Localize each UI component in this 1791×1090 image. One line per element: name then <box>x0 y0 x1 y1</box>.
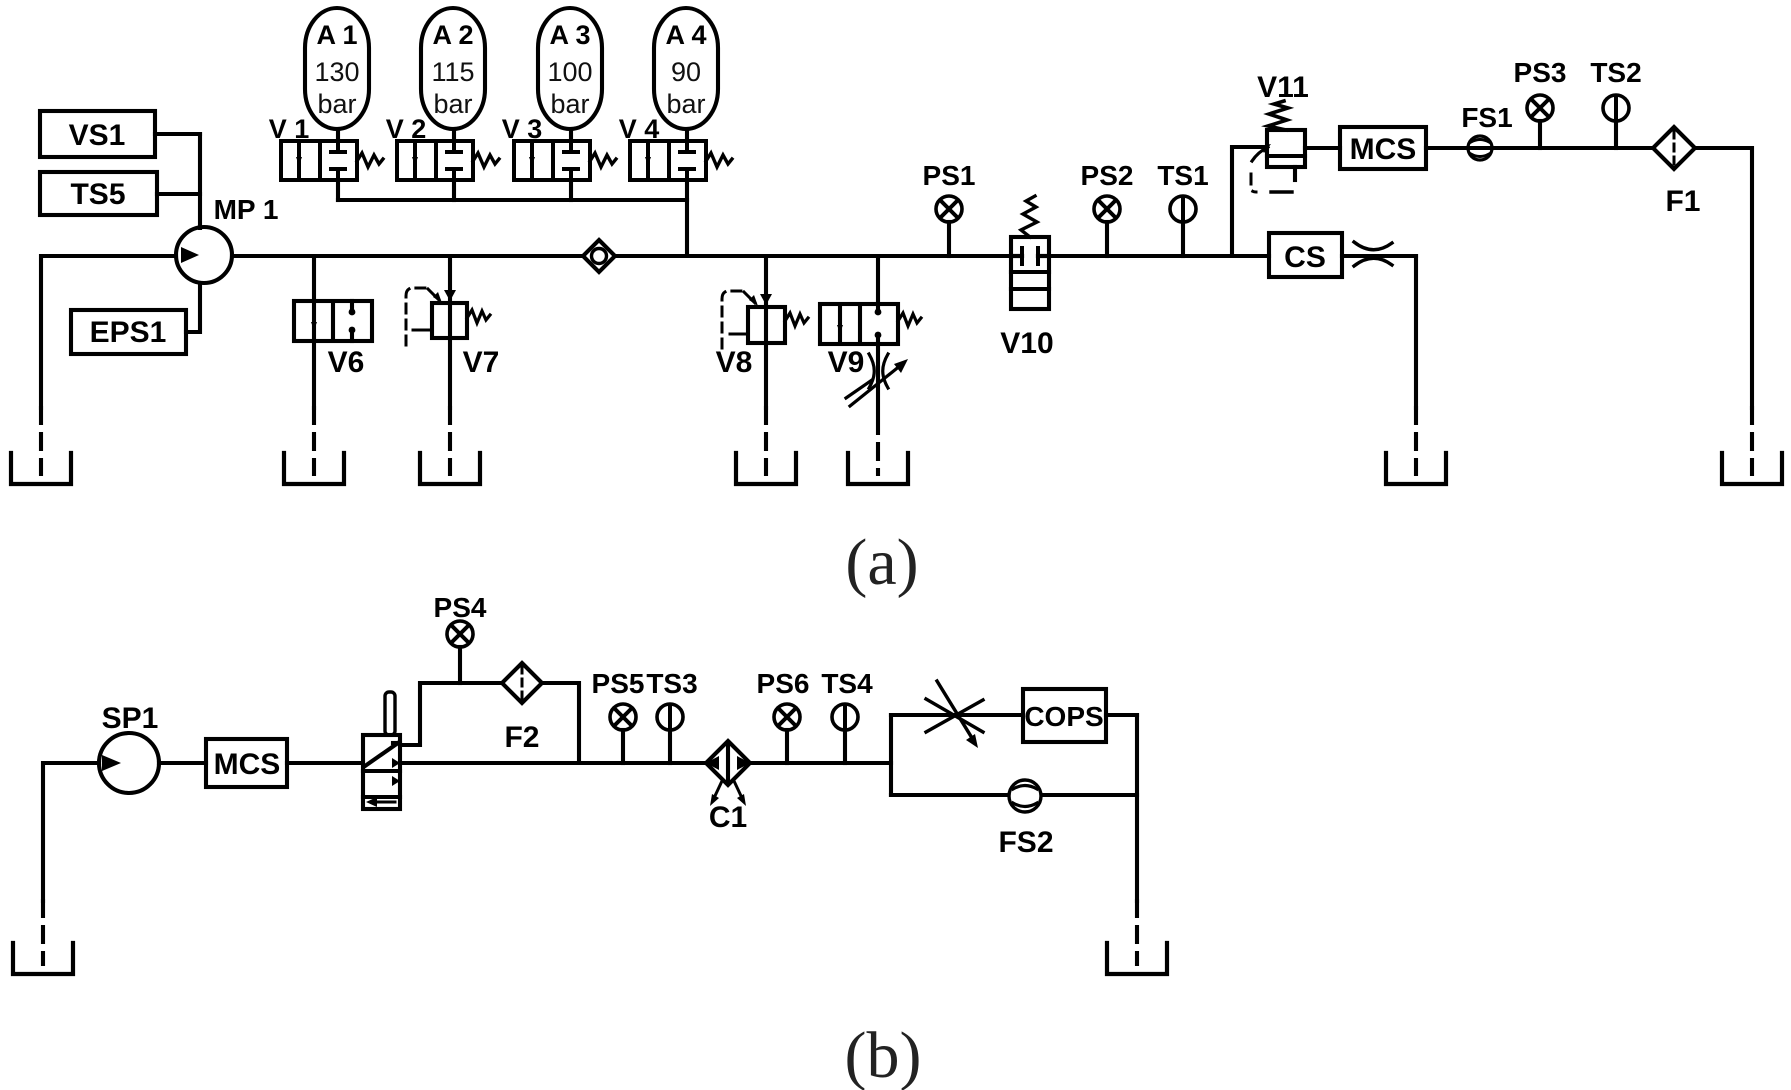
svg-text:FS2: FS2 <box>998 826 1053 859</box>
valve V2 <box>386 114 499 180</box>
wire V6 to tank T2 <box>312 341 316 408</box>
wire branch to V7 <box>448 256 452 303</box>
pump SP1 <box>99 702 159 793</box>
wire MCS to F1 <box>1426 146 1654 150</box>
wire F2 down to main line <box>542 683 579 763</box>
pump MP 1 <box>176 194 278 283</box>
svg-text:FS1: FS1 <box>1461 102 1512 133</box>
wire dashed drop T7 <box>1750 408 1754 474</box>
svg-text:V8: V8 <box>716 346 753 379</box>
wire COPS to right vertical <box>1106 713 1137 717</box>
svg-text:A 2: A 2 <box>432 20 473 50</box>
wire SP1 to MCS <box>159 761 206 765</box>
svg-text:C1: C1 <box>709 801 747 834</box>
wire V2 bottom port to bus <box>452 180 456 200</box>
valve V7 relief <box>406 288 499 379</box>
svg-text:EPS1: EPS1 <box>90 316 167 349</box>
tank T3 <box>420 453 480 484</box>
valve V1 <box>269 114 383 180</box>
wire dashed drop T1 <box>39 408 43 474</box>
wire branch to V6 <box>312 256 316 301</box>
wire VS1 to pump node <box>155 132 200 136</box>
svg-text:90: 90 <box>671 57 701 87</box>
svg-text:V6: V6 <box>328 346 365 379</box>
wire EPS1 to pump bottom <box>186 283 200 332</box>
accumulator A1 130 bar <box>305 8 369 141</box>
svg-text:bar: bar <box>666 89 705 119</box>
svg-text:(b): (b) <box>845 1019 922 1090</box>
wire dashed drop T5 <box>876 418 880 474</box>
wire V8 to tank T4 <box>764 343 768 408</box>
svg-text:F2: F2 <box>504 721 539 754</box>
wire pump suction to tank T1 <box>41 256 176 408</box>
svg-text:MCS: MCS <box>1350 133 1417 166</box>
svg-text:V7: V7 <box>463 346 500 379</box>
wire main line valve to C1 <box>400 761 706 765</box>
flow sensor FS1 <box>1461 102 1512 160</box>
svg-text:TS1: TS1 <box>1157 160 1208 191</box>
control box COPS <box>1023 689 1106 742</box>
tank T9 <box>1107 943 1167 974</box>
wire V11 to MCS <box>1305 146 1340 150</box>
wire main line check valve to V10 <box>615 254 1011 258</box>
svg-text:COPS: COPS <box>1024 701 1103 732</box>
wire dashed drop T3 <box>448 408 452 474</box>
wire vertical into pump top <box>198 134 202 228</box>
tank T8 <box>13 943 73 974</box>
wire dashed drop T2 <box>312 408 316 474</box>
svg-text:VS1: VS1 <box>69 119 126 152</box>
wire dashed drop T9 <box>1135 901 1139 964</box>
svg-text:CS: CS <box>1284 241 1326 274</box>
svg-text:A 4: A 4 <box>665 20 706 50</box>
wire V9 to throttle <box>876 344 880 414</box>
wire branch to V9 <box>876 256 880 304</box>
valve V10 <box>1000 196 1053 360</box>
control box MCS b <box>206 739 287 787</box>
sensor box TS5 <box>40 172 157 215</box>
filter F1 <box>1653 127 1701 218</box>
svg-text:115: 115 <box>431 57 474 87</box>
svg-text:bar: bar <box>317 89 356 119</box>
wire V7 to tank T3 <box>448 338 452 408</box>
svg-text:A 1: A 1 <box>316 20 357 50</box>
pressure sensor PS1 <box>923 160 976 256</box>
svg-text:V 1: V 1 <box>269 114 310 144</box>
wire TS5 to pump node <box>157 192 200 196</box>
valve V3 <box>502 114 616 180</box>
svg-text:V 3: V 3 <box>502 114 543 144</box>
flow sensor FS2 <box>998 780 1053 859</box>
valve V8 relief <box>716 291 808 379</box>
sensor box EPS1 <box>71 310 186 354</box>
filter F2 <box>502 663 542 754</box>
svg-text:bar: bar <box>550 89 589 119</box>
wire F1 to tank T7 <box>1695 148 1752 408</box>
wire branch up to V11 <box>1232 147 1267 256</box>
svg-text:V 4: V 4 <box>619 114 660 144</box>
svg-text:TS2: TS2 <box>1590 57 1641 88</box>
wire V1 bottom port to bus <box>336 180 340 200</box>
wire right vertical to tank T9 <box>1135 715 1139 901</box>
temperature sensor TS2 <box>1590 57 1641 148</box>
wire branch to V8 <box>764 256 768 307</box>
accumulator A4 90 bar <box>654 8 718 141</box>
valve V9 <box>820 304 921 379</box>
wire split vertical <box>889 715 893 795</box>
pressure sensor PS4 <box>434 592 487 683</box>
svg-text:V9: V9 <box>828 346 865 379</box>
svg-text:(a): (a) <box>845 526 918 599</box>
wire MCS to hand valve <box>287 761 363 765</box>
svg-text:100: 100 <box>547 57 592 87</box>
tank T4 <box>736 453 796 484</box>
svg-text:TS3: TS3 <box>646 668 697 699</box>
svg-text:V11: V11 <box>1257 71 1309 104</box>
wire lower branch <box>891 793 1137 797</box>
accumulator A3 100 bar <box>538 8 602 141</box>
svg-text:PS6: PS6 <box>757 668 810 699</box>
temperature sensor TS3 <box>646 668 697 763</box>
throttle b <box>926 681 983 748</box>
control box MCS <box>1340 127 1426 169</box>
coupling after CS <box>1354 242 1392 266</box>
valve V11 regulator <box>1251 71 1309 192</box>
wire bus drop to main line <box>685 180 689 256</box>
svg-text:SP1: SP1 <box>102 702 159 735</box>
wire V3 bottom port to bus <box>569 180 573 200</box>
tank T1 <box>11 453 71 484</box>
temperature sensor TS1 <box>1157 160 1208 256</box>
svg-text:130: 130 <box>314 57 359 87</box>
pressure sensor PS6 <box>757 668 810 763</box>
control box CS <box>1269 233 1342 277</box>
wire dashed drop T4 <box>764 408 768 474</box>
throttle below V9 <box>846 354 908 406</box>
wire dashed drop T8 <box>41 901 45 964</box>
valve V4 <box>619 114 732 180</box>
tank T5 <box>848 453 908 484</box>
pressure sensor PS5 <box>592 668 645 763</box>
wire main line V10 to CS <box>1049 254 1269 258</box>
svg-text:MP 1: MP 1 <box>214 194 279 225</box>
svg-text:PS2: PS2 <box>1081 160 1134 191</box>
tank T6 <box>1386 453 1446 484</box>
svg-text:A 3: A 3 <box>549 20 590 50</box>
sensor box VS1 <box>40 111 155 157</box>
svg-text:TS5: TS5 <box>70 178 125 211</box>
wire CS to coupling <box>1342 254 1416 258</box>
cooler C1 <box>706 741 750 834</box>
wire SP1 suction to tank T8 <box>43 763 99 901</box>
hand valve <box>363 692 400 809</box>
wire valve top port to upper branch <box>400 683 502 745</box>
svg-text:MCS: MCS <box>214 748 281 781</box>
tank T7 <box>1722 453 1782 484</box>
pressure sensor PS3 <box>1514 57 1567 148</box>
svg-text:V10: V10 <box>1000 327 1053 360</box>
wire upper branch to COPS <box>891 713 1023 717</box>
wire main line pump to check valve <box>232 254 583 258</box>
svg-text:bar: bar <box>433 89 472 119</box>
svg-text:PS4: PS4 <box>434 592 487 623</box>
wire accumulator bus <box>338 198 687 202</box>
wire dashed drop T6 <box>1414 408 1418 474</box>
svg-text:TS4: TS4 <box>821 668 873 699</box>
svg-text:PS3: PS3 <box>1514 57 1567 88</box>
svg-text:V 2: V 2 <box>386 114 427 144</box>
svg-text:F1: F1 <box>1665 185 1700 218</box>
svg-text:PS5: PS5 <box>592 668 645 699</box>
accumulator A2 115 bar <box>421 8 485 141</box>
wire main line C1 to split <box>750 761 891 765</box>
svg-text:PS1: PS1 <box>923 160 976 191</box>
wire coupling down to tank T6 <box>1414 256 1418 408</box>
pressure sensor PS2 <box>1081 160 1134 256</box>
check valve node <box>583 240 615 272</box>
temperature sensor TS4 <box>821 668 873 763</box>
valve V6 <box>294 301 372 379</box>
tank T2 <box>284 453 344 484</box>
